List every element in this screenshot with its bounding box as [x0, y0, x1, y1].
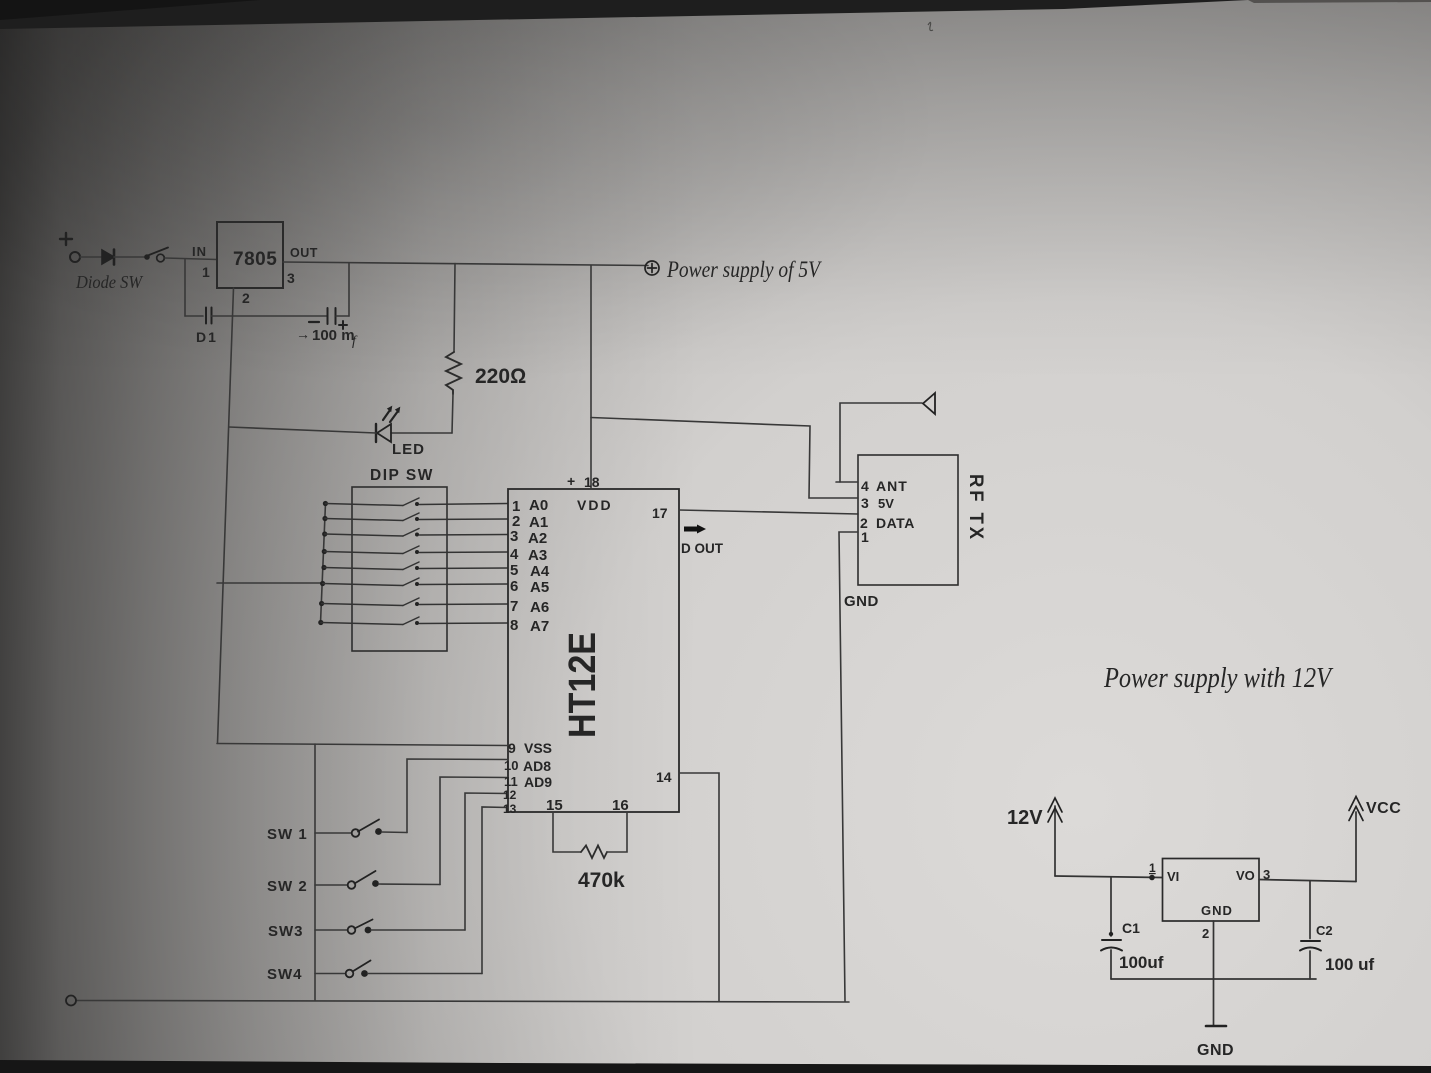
wire OUT to 5V rail — [283, 262, 648, 266]
svg-text:SW3: SW3 — [268, 923, 304, 940]
IC U2 HT12E box — [508, 489, 679, 812]
wire feed to DIP bus — [217, 582, 322, 584]
VCC arrow — [1355, 812, 1357, 882]
svg-text:8: 8 — [510, 617, 518, 634]
svg-text:2: 2 — [1202, 926, 1209, 941]
svg-text:IN: IN — [192, 244, 207, 259]
node: IN junction drop — [184, 260, 186, 317]
wire 5V branch to RF pin3 — [591, 418, 858, 499]
svg-text:100uf: 100uf — [1119, 953, 1164, 972]
wire pin11 AD9 — [440, 777, 508, 885]
svg-text:+: + — [567, 473, 575, 489]
5V rail down to VDD pin 18 — [590, 266, 592, 490]
dip switch row 4 — [322, 546, 508, 554]
regulator U1 7805 box — [217, 222, 283, 288]
svg-text:11: 11 — [504, 774, 518, 789]
wire — [211, 315, 327, 317]
svg-text:HT12E: HT12E — [562, 632, 604, 738]
svg-text:17: 17 — [652, 505, 668, 521]
svg-text:2: 2 — [242, 290, 250, 306]
ground bar — [1206, 1025, 1226, 1028]
capacitor C 100mf — [328, 308, 336, 324]
switch SW4 — [315, 961, 482, 978]
svg-text:RF TX: RF TX — [965, 474, 986, 542]
svg-text:13: 13 — [503, 802, 517, 816]
resistor R2 470k with pin15 pin16 — [553, 812, 581, 852]
switch SW (power) — [144, 254, 150, 260]
svg-text:18: 18 — [584, 474, 600, 490]
svg-text:A4: A4 — [530, 563, 550, 580]
svg-text:VSS: VSS — [524, 740, 552, 756]
svg-text:Power supply of 5V: Power supply of 5V — [666, 257, 822, 282]
wire RF pin1 GND down — [839, 532, 858, 1001]
resistor R1 220ohm lead — [454, 264, 455, 353]
svg-text:D1: D1 — [196, 329, 218, 345]
wire VO to VCC — [1259, 880, 1356, 882]
svg-text:LED: LED — [392, 441, 425, 458]
capacitor C1 — [1110, 878, 1112, 937]
svg-text:VI: VI — [1167, 869, 1179, 884]
DOUT arrow mark — [684, 525, 706, 534]
wire pin10 AD8 — [407, 759, 508, 833]
wire: regulator pin2 down long vertical — [218, 288, 234, 743]
svg-text:9: 9 — [508, 740, 516, 756]
svg-text:DIP SW: DIP SW — [370, 467, 434, 484]
12V arrow — [1054, 806, 1056, 876]
svg-text:C1: C1 — [1122, 920, 1140, 936]
svg-text:7805: 7805 — [233, 249, 277, 270]
wire LED to left rail — [229, 427, 376, 433]
wire up to OUT rail — [348, 264, 350, 317]
RF TX module box — [858, 455, 958, 585]
svg-text:10: 10 — [504, 758, 518, 773]
svg-text:5V: 5V — [878, 496, 894, 511]
svg-text:Diode SW: Diode SW — [75, 272, 144, 292]
input plus terminal — [60, 233, 72, 245]
dip switch row 3 — [322, 529, 507, 537]
svg-text:A0: A0 — [529, 497, 548, 514]
bottom common wire — [76, 1001, 849, 1003]
dip switch row 1 — [323, 498, 508, 506]
wire — [80, 256, 102, 258]
DIP SW rows — [318, 498, 507, 625]
svg-text:GND: GND — [844, 593, 879, 610]
svg-text:3: 3 — [287, 270, 295, 286]
input terminal circle — [70, 252, 80, 262]
regulator U3 box — [1163, 859, 1260, 922]
svg-text:1: 1 — [1149, 861, 1156, 875]
switch SW3 — [315, 920, 465, 934]
svg-text:DATA: DATA — [876, 515, 915, 531]
svg-text:4: 4 — [861, 478, 869, 494]
DIP bus — [321, 503, 326, 623]
wire pin14 — [679, 773, 719, 1001]
wire 12V to VI — [1055, 876, 1162, 878]
svg-text:Power supply with 12V: Power supply with 12V — [1103, 663, 1333, 694]
svg-text:D OUT: D OUT — [681, 541, 724, 556]
svg-text:470k: 470k — [578, 869, 625, 892]
svg-text:C2: C2 — [1316, 923, 1333, 938]
svg-text:A3: A3 — [528, 547, 547, 564]
svg-text:3: 3 — [510, 528, 518, 545]
resistor R1 220ohm — [446, 352, 461, 394]
svg-text:A7: A7 — [530, 618, 549, 635]
svg-text:SW 1: SW 1 — [267, 826, 308, 843]
svg-text:SW4: SW4 — [267, 966, 303, 983]
svg-text:→: → — [296, 326, 310, 342]
svg-text:OUT: OUT — [290, 246, 318, 260]
bottom wire — [1111, 978, 1316, 980]
svg-text:100 m: 100 m — [312, 327, 355, 344]
svg-text:15: 15 — [546, 797, 563, 814]
svg-text:5: 5 — [510, 562, 518, 579]
svg-text:A5: A5 — [530, 579, 549, 596]
svg-text:4: 4 — [510, 546, 519, 563]
capacitor D1 — [206, 308, 212, 324]
GND pin2 stem — [1213, 921, 1215, 1025]
svg-text:220Ω: 220Ω — [475, 365, 526, 388]
svg-text:100 uf: 100 uf — [1325, 955, 1374, 974]
dip switch row 5 — [321, 562, 507, 570]
wire to regulator IN — [165, 258, 217, 260]
SW bus vertical — [314, 744, 316, 1000]
dark table band at bottom — [0, 1060, 1431, 1073]
wire — [336, 315, 349, 317]
svg-text:16: 16 — [612, 797, 629, 814]
svg-text:GND: GND — [1197, 1042, 1234, 1059]
svg-text:14: 14 — [656, 769, 672, 785]
wire pin9 VSS — [217, 744, 508, 746]
svg-text:A2: A2 — [528, 530, 547, 547]
svg-text:ANT: ANT — [876, 478, 908, 494]
svg-text:3: 3 — [1263, 867, 1270, 882]
svg-text:AD8: AD8 — [523, 758, 551, 774]
wire pin13 — [482, 807, 508, 974]
svg-text:VCC: VCC — [1366, 800, 1401, 817]
svg-text:1: 1 — [861, 529, 869, 545]
wire to LED — [391, 432, 452, 434]
node pin1 dot — [1149, 875, 1155, 881]
capacitor C2 — [1309, 881, 1311, 939]
wire — [452, 394, 453, 433]
stray pen mark — [928, 22, 933, 30]
dark table band at top — [0, 0, 1248, 29]
svg-text:7: 7 — [510, 598, 518, 615]
svg-text:SW 2: SW 2 — [267, 878, 308, 895]
switch SW2 — [315, 871, 440, 889]
svg-text:6: 6 — [510, 578, 518, 595]
switch SW1 — [315, 820, 407, 837]
svg-text:GND: GND — [1201, 903, 1233, 918]
svg-text:12: 12 — [503, 788, 517, 802]
power supply node symbol — [645, 261, 659, 275]
dip switch row 2 — [322, 513, 507, 521]
antenna — [836, 481, 858, 483]
svg-text:AD9: AD9 — [524, 774, 552, 790]
bottom terminal circle — [66, 996, 76, 1006]
svg-text:VDD: VDD — [577, 497, 613, 513]
DIP switch box — [352, 487, 447, 651]
dip switch row 7 — [319, 598, 508, 606]
diode D (series) — [102, 250, 114, 265]
LED D2 — [376, 406, 400, 442]
svg-text:VO: VO — [1236, 868, 1255, 883]
wire — [185, 315, 203, 317]
wire pin12 — [465, 793, 508, 930]
dip switch row 8 — [318, 617, 507, 625]
svg-text:A1: A1 — [529, 514, 548, 531]
wire pin17 to RF data — [679, 510, 858, 514]
wire — [114, 256, 146, 258]
dip switch row 6 — [320, 578, 508, 586]
svg-text:1: 1 — [202, 264, 210, 280]
svg-text:3: 3 — [861, 495, 869, 511]
svg-text:12V: 12V — [1007, 807, 1043, 829]
svg-text:A6: A6 — [530, 599, 549, 616]
